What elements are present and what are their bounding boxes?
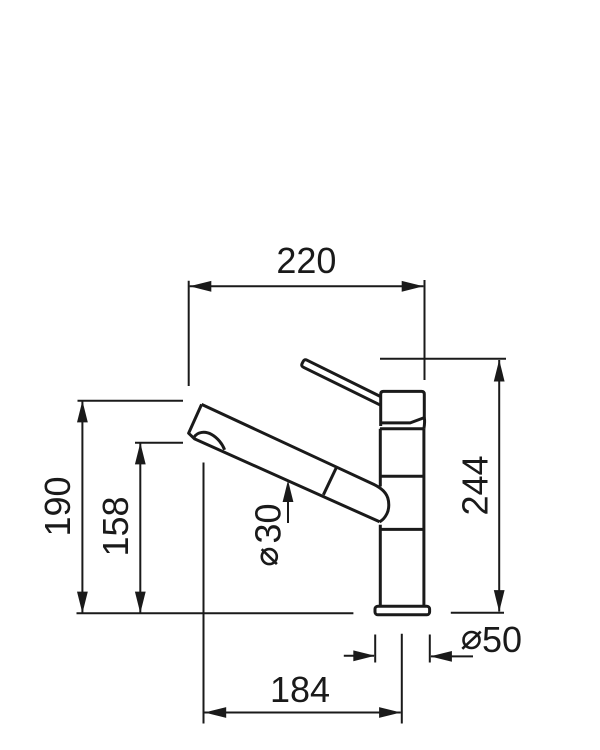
184 right arrowhead [379, 707, 401, 718]
body division line 2 [380, 528, 424, 531]
spout top edge and elbow [202, 404, 389, 521]
svg-text:50: 50 [482, 619, 522, 660]
244 bottom extension line [451, 612, 504, 614]
dia50 left arrowhead [353, 650, 375, 661]
lever handle [302, 360, 381, 406]
svg-text:158: 158 [95, 496, 136, 556]
svg-text:184: 184 [270, 669, 330, 710]
244 bottom arrowhead [494, 590, 505, 612]
dia50 right arrowhead [430, 651, 452, 662]
spout aerator lens [194, 432, 224, 449]
body section top line [380, 427, 424, 430]
220 left arrowhead [190, 281, 212, 292]
244 top extension line [380, 358, 506, 360]
184 dimension line [205, 712, 401, 714]
cap right connector [422, 418, 426, 429]
158 dimension line [139, 443, 141, 614]
svg-text:220: 220 [276, 240, 336, 281]
spout wedge division [323, 468, 336, 495]
184 left arrowhead [205, 707, 227, 718]
spout tip face and bottom edge [189, 404, 380, 521]
220 right extension line [424, 280, 426, 380]
dia50 left arrow line [344, 655, 374, 657]
244 dimension line [498, 360, 500, 612]
dia30 arrowhead [283, 480, 294, 502]
190 top arrowhead [77, 401, 88, 423]
190 top extension line [78, 400, 184, 402]
190 bottom arrowhead [77, 592, 88, 614]
dia30 leader line [287, 501, 289, 523]
220 left extension line [188, 281, 190, 386]
body top cap [381, 391, 425, 426]
svg-text:190: 190 [37, 476, 78, 536]
dia50 right arrow line [431, 655, 473, 657]
dia50 left extension line [374, 635, 376, 663]
svg-text:244: 244 [454, 455, 495, 515]
body left edge lower [379, 525, 382, 607]
220 right arrowhead [402, 281, 424, 292]
158 top arrowhead [135, 443, 146, 465]
dia symbol for 30 [262, 549, 277, 564]
baseline [77, 612, 354, 614]
base flange [375, 606, 430, 615]
184 left extension line [203, 463, 205, 724]
dia symbol for 50 [462, 632, 480, 649]
158 top extension line [135, 442, 183, 444]
body division line 1 [380, 475, 424, 478]
184 right extension line (body axis) [401, 634, 403, 724]
190 dimension line [81, 401, 83, 614]
body left edge upper [379, 429, 382, 487]
158 bottom arrowhead [135, 592, 146, 614]
svg-text:30: 30 [248, 503, 289, 543]
220 dimension line [190, 285, 424, 287]
244 top arrowhead [494, 360, 505, 382]
body right edge [422, 429, 425, 607]
dia50 right extension line [429, 635, 431, 663]
